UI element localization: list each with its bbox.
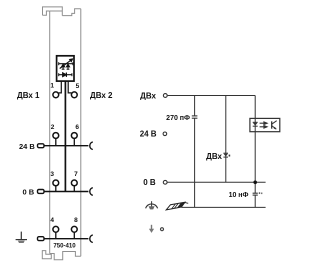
terminal 5 [71,92,77,98]
svg-text:3: 3 [50,171,54,178]
capacitor C1 270pF [192,116,198,118]
wire branch C1 [194,96,196,208]
clamp arc row3 [90,188,93,196]
wire body top edge [50,10,63,12]
terminal 8 [71,226,77,232]
terminal 1 [53,92,59,98]
svg-text:ДВх: ДВх [206,152,222,161]
svg-text:4: 4 [50,217,54,224]
wire terminal3 stub [55,186,57,192]
wire hook bottom [43,11,50,15]
wire row3 0V [44,191,88,193]
svg-text:2: 2 [51,124,55,131]
icon service arc [146,201,158,209]
wire terminal6 stub [73,138,75,146]
ground earth symbol [16,232,27,243]
wire box to terminal 1 [59,81,62,93]
connector square 0V [38,190,45,194]
terminal 3 [53,180,59,186]
wire terminal2 stub [55,138,57,146]
svg-text:0 В: 0 В [23,188,35,197]
node DVx terminal [163,94,167,98]
svg-text:ДВх: ДВх [140,91,156,100]
LED box U1 [57,56,74,81]
clamp arc row2 [90,142,93,150]
footnote double asterisk [259,192,260,194]
wire left body edge [49,11,51,254]
svg-text:10 нФ: 10 нФ [229,192,249,199]
icon small circle [161,228,164,231]
wire through optocoupler [254,118,256,131]
icon marking wedge [166,202,188,210]
clamp arc row4 [90,235,93,243]
diode D4 [223,153,228,158]
svg-text:0 В: 0 В [143,178,156,187]
connector square 24V [38,144,45,148]
optocoupler U2 [250,118,280,131]
wire row2 24V [44,145,88,147]
icon down arrow [149,225,154,233]
wire DVx rail [168,95,256,97]
connector square earth [38,237,45,241]
wire terminal7 stub [73,186,75,192]
wire terminal4 stub [55,232,57,239]
svg-text:270 пФ: 270 пФ [166,115,190,122]
svg-text:ДВх 1: ДВх 1 [17,91,40,100]
module 750-410 housing outline [42,7,81,260]
svg-text:7: 7 [74,171,78,178]
node 24V terminal [163,132,167,136]
terminal 2 [53,133,59,139]
LED in optocoupler [253,122,258,127]
wire bottom rail [182,206,266,208]
svg-text:ДВх 2: ДВх 2 [90,91,113,100]
wire top tab [43,7,63,16]
terminal 4 [53,226,59,232]
junction dot 0V [253,181,257,185]
phototransistor Q1 [272,121,277,130]
svg-text:24 В: 24 В [140,130,157,139]
wire 0V rail [168,181,266,183]
diode D3 [59,73,72,77]
wire bottom latch [42,251,51,259]
wire branch D4 [225,96,227,183]
wire terminal8 stub [73,232,75,239]
terminal 6 [71,133,77,139]
svg-text:5: 5 [76,83,80,90]
LED pair D1 D2 [59,59,73,70]
svg-text:6: 6 [75,124,79,131]
svg-text:8: 8 [74,217,78,224]
wire branch optocoupler [254,96,256,208]
wire top step right [62,9,81,16]
light arrows [260,122,268,128]
wire bottom contour [50,252,81,260]
svg-text:24 В: 24 В [19,142,35,151]
wire center bus [64,81,66,191]
footnote asterisk [229,155,231,157]
terminal 7 [71,180,77,186]
wire box to terminal 5 [68,81,71,93]
wire row4 earth [44,238,88,240]
capacitor C2 10nF [253,193,258,195]
svg-text:1: 1 [50,83,54,90]
wire right body edge [80,9,82,256]
svg-text:750-410: 750-410 [53,243,76,250]
node 0V terminal [163,180,167,184]
